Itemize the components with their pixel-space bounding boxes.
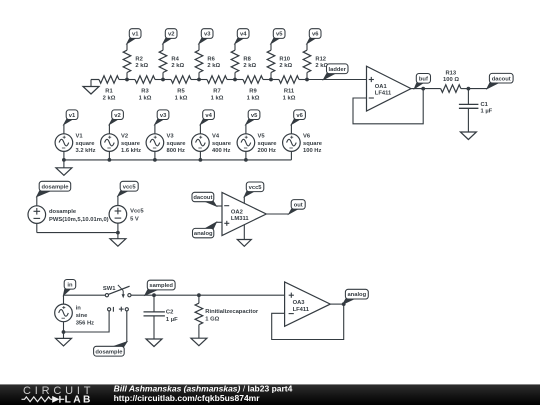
svg-text:sampled: sampled <box>149 283 173 289</box>
flag v3 (source row) <box>155 110 169 125</box>
ground (vcc5) <box>110 233 126 247</box>
node (in source bottom) <box>62 330 66 334</box>
wire (to switch) <box>64 294 106 296</box>
op-amp OA1 LF411 <box>367 66 412 111</box>
resistor R2 <box>123 44 148 80</box>
svg-text:square: square <box>212 141 232 147</box>
svg-text:square: square <box>76 141 96 147</box>
svg-text:v6: v6 <box>312 32 319 38</box>
voltage source Vcc5 5V <box>109 196 144 233</box>
svg-text:v2: v2 <box>114 113 120 119</box>
node (OA3 output junction) <box>342 302 346 306</box>
svg-text:dosample: dosample <box>49 209 77 215</box>
node (R13/C1 junction) <box>467 87 471 91</box>
node (rail junction) <box>62 158 66 162</box>
svg-text:1.6 kHz: 1.6 kHz <box>121 148 141 154</box>
svg-text:1 µF: 1 µF <box>166 317 178 323</box>
wire (switch - control to ground rail) <box>64 311 110 332</box>
svg-text:R11: R11 <box>284 89 295 95</box>
svg-text:V4: V4 <box>212 134 220 140</box>
resistor R9 <box>235 76 271 102</box>
flag in <box>64 280 76 296</box>
svg-text:v4: v4 <box>240 32 247 38</box>
flag vcc5 (OA2 V+) <box>244 182 263 197</box>
voltage source V2 (square 1.6 kHz) <box>101 124 141 159</box>
svg-text:dosample: dosample <box>41 184 69 190</box>
wire (switch + control to dosample) <box>126 311 128 342</box>
svg-text:v3: v3 <box>160 113 167 119</box>
node (junction col 2) <box>161 78 165 82</box>
svg-text:v6: v6 <box>296 113 303 119</box>
svg-text:2 kΩ: 2 kΩ <box>171 63 184 69</box>
capacitor C2 <box>144 295 179 339</box>
ground (C2) <box>146 339 162 347</box>
voltage source V3 (square 800 Hz) <box>146 124 186 159</box>
flag dosample (top) <box>37 181 71 196</box>
flag v5 (source row) <box>246 110 260 125</box>
node (junction col 1) <box>125 78 129 82</box>
svg-text:OA1: OA1 <box>375 84 388 90</box>
svg-text:356 Hz: 356 Hz <box>76 321 94 327</box>
svg-text:dacout: dacout <box>492 76 511 82</box>
wire (V+ pin) <box>243 197 245 204</box>
svg-text:in: in <box>67 282 73 288</box>
svg-text:R12: R12 <box>315 57 326 63</box>
svg-text:square: square <box>167 141 187 147</box>
wire (switch to OA3) <box>131 294 285 296</box>
svg-text:ladder: ladder <box>328 67 346 73</box>
op-amp OA3 LF411 <box>285 282 331 326</box>
svg-text:v4: v4 <box>205 113 212 119</box>
svg-text:dacout: dacout <box>193 195 212 201</box>
voltage source V4 (square 400 Hz) <box>192 124 232 159</box>
svg-text:vcc5: vcc5 <box>249 185 263 191</box>
svg-text:Vcc5: Vcc5 <box>130 209 144 215</box>
voltage source V1 (square 3.2 kHz) <box>55 124 95 159</box>
flag v6 (top) <box>307 29 321 44</box>
svg-text:OA3: OA3 <box>293 300 306 306</box>
resistor R5 <box>163 76 199 102</box>
svg-text:v1: v1 <box>132 32 139 38</box>
svg-text:square: square <box>258 141 278 147</box>
node (junction col 4) <box>233 78 237 82</box>
node analog (flag) <box>343 289 368 304</box>
flag v2 (source row) <box>109 110 123 125</box>
footer title <box>114 384 293 394</box>
svg-text:analog: analog <box>194 231 213 237</box>
svg-text:800 Hz: 800 Hz <box>167 148 185 154</box>
svg-text:R6: R6 <box>207 57 215 63</box>
svg-text:V5: V5 <box>258 134 266 140</box>
svg-text:5 V: 5 V <box>130 217 139 223</box>
svg-text:square: square <box>121 141 141 147</box>
resistor R6 <box>195 44 220 80</box>
svg-text:V6: V6 <box>303 134 311 140</box>
svg-text:C1: C1 <box>481 102 489 108</box>
resistor R11 <box>271 76 307 102</box>
svg-text:2 kΩ: 2 kΩ <box>207 63 220 69</box>
svg-text:R2: R2 <box>135 57 142 63</box>
ground (in source) <box>56 332 72 346</box>
node dacout (flag) <box>487 73 513 88</box>
ground (R1 left end) <box>83 80 99 95</box>
svg-text:400 Hz: 400 Hz <box>212 148 230 154</box>
wire (chain to OA1) <box>307 79 367 81</box>
ground (OA2) <box>237 240 251 247</box>
wire <box>37 232 118 234</box>
wire (+ stub) <box>216 221 222 223</box>
svg-text:vcc5: vcc5 <box>123 184 137 190</box>
svg-text:2 kΩ: 2 kΩ <box>103 96 116 102</box>
svg-text:100 Hz: 100 Hz <box>303 148 321 154</box>
resistor R10 <box>267 44 292 80</box>
node (C2 junction) <box>152 293 156 297</box>
svg-text:Bill Ashmanskas (ashmanskas) /: Bill Ashmanskas (ashmanskas) / lab23 par… <box>114 384 293 394</box>
node (junction col 5) <box>269 78 273 82</box>
wire <box>468 88 487 90</box>
ground (source row) <box>56 160 72 175</box>
svg-text:SW1: SW1 <box>103 286 116 292</box>
wire (OA3 output) <box>330 303 343 305</box>
wire (V- pin) <box>243 225 245 240</box>
svg-text:R1: R1 <box>105 89 113 95</box>
svg-text:LM311: LM311 <box>231 216 249 222</box>
wire <box>91 79 99 81</box>
voltage source V6 (square 100 Hz) <box>283 124 323 159</box>
svg-text:R8: R8 <box>243 57 251 63</box>
ground (Rinit) <box>191 338 207 346</box>
svg-text:1 kΩ: 1 kΩ <box>247 96 260 102</box>
node buf (flag) <box>414 74 430 89</box>
svg-text:R7: R7 <box>213 89 220 95</box>
flag v2 (top) <box>163 29 177 44</box>
svg-text:buf: buf <box>419 76 428 82</box>
flag analog (OA2 + input) <box>193 222 217 237</box>
svg-text:Rinitializecapacitor: Rinitializecapacitor <box>205 309 259 315</box>
footer url <box>114 393 261 403</box>
svg-text:1 GΩ: 1 GΩ <box>205 316 219 322</box>
flag v4 (top) <box>235 29 249 44</box>
svg-text:http://circuitlab.com/cfqkb5us: http://circuitlab.com/cfqkb5us874mr <box>114 393 261 403</box>
svg-text:2 kΩ: 2 kΩ <box>243 63 256 69</box>
resistor R7 <box>199 76 235 102</box>
capacitor C1 <box>459 89 493 132</box>
svg-text:1 kΩ: 1 kΩ <box>139 96 152 102</box>
svg-text:OA2: OA2 <box>231 210 243 216</box>
flag v4 (source row) <box>200 110 214 125</box>
flag vcc5 (source) <box>118 181 138 196</box>
resistor R4 <box>159 44 184 80</box>
resistor R3 <box>127 76 163 102</box>
svg-text:V1: V1 <box>76 134 84 140</box>
svg-text:C2: C2 <box>166 309 173 315</box>
voltage source V5 (square 200 Hz) <box>237 124 277 159</box>
resistor Rinitializecapacitor <box>195 295 259 338</box>
svg-text:v1: v1 <box>69 113 76 119</box>
wire (OA1 feedback) <box>353 89 423 124</box>
svg-text:LF411: LF411 <box>293 307 310 313</box>
svg-text:R13: R13 <box>445 70 456 76</box>
wire (OA1 output) <box>411 88 441 90</box>
switch SW1 control terminals <box>108 307 129 312</box>
svg-text:R5: R5 <box>177 89 185 95</box>
wire (- stub) <box>216 205 222 207</box>
flag dosample (bottom) <box>94 342 127 356</box>
node out (flag) <box>289 200 305 214</box>
op-amp OA2 LM311 <box>222 193 266 236</box>
wire (source row rail) <box>64 159 292 161</box>
svg-text:v5: v5 <box>251 113 258 119</box>
flag v1 (source row) <box>64 110 78 125</box>
voltage source in (sine 356 Hz) <box>55 295 94 332</box>
resistor R12 <box>303 44 328 80</box>
svg-text:200 Hz: 200 Hz <box>258 148 276 154</box>
flag v3 (top) <box>199 29 213 44</box>
svg-text:V3: V3 <box>167 134 175 140</box>
node (output junction) <box>421 87 425 91</box>
svg-text:dosample: dosample <box>95 349 123 355</box>
node (rail junction) <box>244 158 248 162</box>
svg-text:out: out <box>294 203 303 209</box>
svg-text:PWS(10m,5,10.01m,0): PWS(10m,5,10.01m,0) <box>49 217 109 223</box>
node (rail junction) <box>108 158 112 162</box>
node (rail junction) <box>153 158 157 162</box>
svg-text:LAB: LAB <box>65 395 93 405</box>
resistor R1 <box>91 76 127 102</box>
svg-text:v2: v2 <box>168 32 174 38</box>
resistor R8 <box>231 44 256 80</box>
node (junction col 3) <box>197 78 201 82</box>
node (vcc5 ground junction) <box>116 231 120 235</box>
node (Rinit junction) <box>197 293 201 297</box>
svg-text:100 Ω: 100 Ω <box>443 77 459 83</box>
svg-text:1 kΩ: 1 kΩ <box>211 96 224 102</box>
flag v6 (source row) <box>291 110 305 125</box>
node sampled (flag) <box>145 280 175 295</box>
CircuitLab logo <box>22 385 95 405</box>
flag dacout (OA2 - input) <box>192 192 216 206</box>
flag v5 (top) <box>271 29 285 44</box>
voltage source dosample PWS <box>28 197 109 233</box>
svg-text:R10: R10 <box>279 57 290 63</box>
svg-text:LF411: LF411 <box>375 91 392 97</box>
svg-text:2 kΩ: 2 kΩ <box>279 63 292 69</box>
svg-text:2 kΩ: 2 kΩ <box>135 63 148 69</box>
svg-text:v3: v3 <box>204 32 211 38</box>
svg-text:3.2 kHz: 3.2 kHz <box>76 148 96 154</box>
svg-text:1 µF: 1 µF <box>481 109 493 115</box>
svg-text:R4: R4 <box>171 57 179 63</box>
ground (C1) <box>460 132 476 140</box>
svg-text:square: square <box>303 141 323 147</box>
wire (OA3 feedback) <box>272 304 344 339</box>
node ladder (flag) <box>324 64 349 80</box>
svg-text:V2: V2 <box>121 134 128 140</box>
node (rail junction) <box>199 158 203 162</box>
svg-text:1 kΩ: 1 kΩ <box>283 96 296 102</box>
svg-text:analog: analog <box>347 292 366 298</box>
switch SW1 <box>103 285 131 298</box>
flag v1 (top) <box>127 29 141 44</box>
svg-text:in: in <box>76 305 82 311</box>
svg-text:1 kΩ: 1 kΩ <box>175 96 188 102</box>
wire (OA2 output) <box>266 213 289 215</box>
resistor R13 <box>441 70 469 92</box>
svg-text:R9: R9 <box>249 89 257 95</box>
svg-text:R3: R3 <box>141 89 149 95</box>
svg-text:sine: sine <box>76 313 88 319</box>
svg-text:v5: v5 <box>276 32 283 38</box>
node (junction col 6) <box>305 78 309 82</box>
